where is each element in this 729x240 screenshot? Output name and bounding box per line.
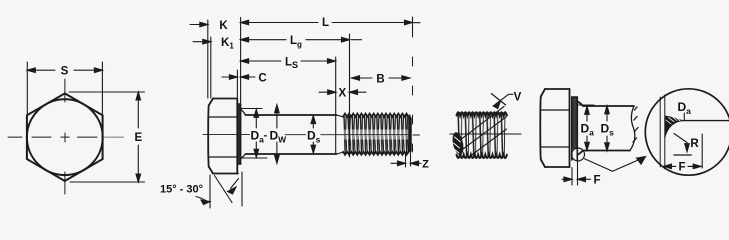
Ls dimension [241, 59, 336, 64]
second head side view [540, 89, 569, 167]
detail crest bumps bottom [457, 155, 507, 158]
center cross [61, 133, 69, 142]
X dimension [319, 90, 366, 95]
detail base line [674, 154, 692, 156]
Lg dimension [241, 37, 362, 42]
break line [630, 106, 638, 151]
detail washer face lines [660, 95, 665, 169]
detail right extension [701, 134, 703, 168]
washer face [237, 104, 240, 164]
L extension dashed [412, 28, 414, 152]
Z dimension [391, 153, 421, 168]
svg-text:B: B [376, 74, 384, 86]
washer face extension line for C [236, 70, 238, 98]
B dimension [352, 76, 410, 81]
fillet transition ticks Da [241, 109, 267, 159]
thread crest zigzag top [343, 113, 409, 116]
bolt head side view [208, 99, 238, 174]
svg-text:V: V [514, 92, 522, 104]
E dimension [69, 92, 145, 182]
detail indicator circle [572, 148, 585, 161]
C dimension [222, 75, 255, 80]
Da2 dimension [585, 106, 590, 150]
thread crest zigzag bottom [343, 152, 409, 155]
horizontal centerline [8, 136, 124, 138]
washer face 2 [572, 97, 578, 149]
bolt centerline [203, 133, 420, 136]
detail centerline over [450, 133, 521, 135]
chamfer circle [27, 99, 103, 175]
F extension lines [572, 162, 578, 185]
svg-text:E: E [134, 132, 142, 144]
Da tick 2 [578, 104, 594, 106]
svg-text:F: F [593, 175, 600, 187]
Ds2 dimension [605, 106, 610, 151]
detail helix lines [459, 107, 507, 158]
head2 hex division lines [541, 110, 570, 147]
thread runout extension line [349, 34, 351, 157]
L dimension [241, 17, 420, 34]
Da dimension line [254, 109, 259, 157]
svg-text:K: K [219, 20, 228, 32]
bearing face extension line [240, 18, 242, 104]
svg-text:S: S [61, 66, 69, 78]
V leader [491, 94, 513, 109]
F detail dimension [664, 164, 702, 169]
chamfer angle figure [196, 172, 242, 208]
R leader [674, 134, 689, 152]
threaded portion texture [343, 115, 411, 155]
detail point chamfer ellipse [451, 131, 466, 156]
svg-text:-: - [264, 130, 268, 142]
detail centerline [450, 133, 521, 135]
S dimension [27, 62, 102, 114]
F dimension [562, 177, 591, 182]
point chamfer edges [406, 115, 412, 154]
detail circle [645, 89, 729, 175]
svg-text:Z: Z [422, 158, 429, 170]
detail crest bumps top [457, 112, 507, 115]
Ds dimension line [311, 116, 316, 154]
svg-text:C: C [258, 73, 266, 85]
shank 2 [577, 102, 634, 156]
underhead fillet [241, 110, 246, 116]
Ls extension line [335, 57, 337, 154]
svg-text:15° - 30°: 15° - 30° [160, 184, 203, 196]
svg-text:F: F [678, 162, 685, 174]
Dw dimension line [275, 105, 280, 164]
detail fillet [665, 116, 683, 138]
svg-text:R: R [690, 138, 699, 150]
hexagon head top view [27, 93, 103, 181]
detail bearing line [680, 120, 729, 122]
vertical centerline [64, 79, 66, 194]
svg-text:X: X [338, 88, 346, 100]
shank [246, 115, 337, 154]
K dimension [190, 20, 208, 98]
thread end dark zone [408, 117, 411, 153]
svg-text:L: L [322, 17, 329, 29]
thread run-out [336, 115, 344, 154]
leader to detail [585, 157, 646, 172]
head hex division lines [209, 117, 238, 157]
K1 dimension [193, 37, 211, 98]
Da detail tick [683, 113, 685, 120]
